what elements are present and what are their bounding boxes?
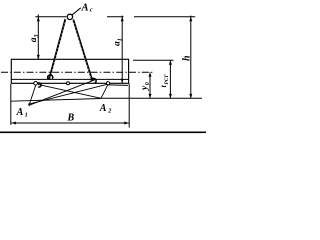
extension line beam top right <box>133 59 174 61</box>
apex ring Ac <box>67 14 72 19</box>
dimension t <box>169 60 171 98</box>
hook at left lug <box>38 83 42 87</box>
lug circle right <box>106 82 109 85</box>
dimension h <box>190 16 192 99</box>
lug circle left <box>34 82 38 86</box>
svg-text:1: 1 <box>25 112 28 118</box>
label a1 <box>112 38 123 46</box>
hook at right leg end <box>91 78 96 83</box>
bottom rule <box>0 132 206 134</box>
svg-text:1: 1 <box>117 38 123 41</box>
dimension a1 <box>121 16 123 84</box>
beam axis center line <box>1 71 154 73</box>
left sling leg <box>49 19 65 79</box>
bottom extension line for h t y0 <box>101 97 202 99</box>
sling line A1 to right lug <box>29 84 108 104</box>
svg-text:2: 2 <box>107 109 111 115</box>
anchor A1 point <box>28 104 30 107</box>
beam inner line <box>11 78 128 80</box>
svg-text:c: c <box>90 7 93 14</box>
extension line at ring level right <box>134 16 195 18</box>
leader to Ac label <box>72 8 81 15</box>
anchor base line A1-A2 <box>11 99 101 102</box>
svg-text:A: A <box>81 3 89 14</box>
svg-text:A: A <box>16 107 24 118</box>
svg-text:3: 3 <box>34 35 40 39</box>
extension line at ring level middle <box>107 16 124 18</box>
label y0 <box>140 82 151 91</box>
dimension a3 <box>37 14 39 59</box>
label Ac <box>16 3 193 124</box>
dimension y0 <box>149 72 151 98</box>
extension line at ring level left <box>35 16 66 18</box>
sling line A2 to right lug <box>101 84 108 98</box>
label t PCГ <box>159 73 170 87</box>
lug circle middle <box>67 82 70 85</box>
svg-text:h: h <box>182 55 193 61</box>
svg-text:РСГ: РСГ <box>164 73 170 84</box>
lower ledge line right of right lug <box>109 84 129 87</box>
B extension right <box>128 84 130 128</box>
label h <box>182 55 193 61</box>
sling line A2 to left area <box>38 84 101 98</box>
svg-text:B: B <box>67 112 75 123</box>
svg-text:A: A <box>99 103 107 114</box>
sling line A1 to left lug <box>29 85 36 105</box>
right sling leg <box>73 19 92 80</box>
label a3 <box>29 35 40 43</box>
svg-text:0: 0 <box>145 82 151 85</box>
beam outline <box>11 59 128 83</box>
sling line A1 to right leg hook <box>29 80 95 106</box>
dimension B <box>11 122 129 124</box>
B extension left <box>10 84 12 125</box>
hook at left leg end <box>48 75 53 79</box>
